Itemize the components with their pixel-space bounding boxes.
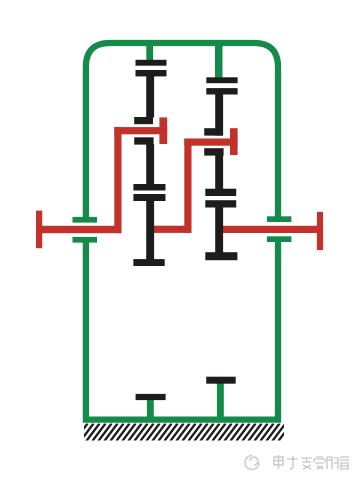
carrier arm 1 horizontal (red) <box>114 127 167 134</box>
planet shaft 1 lower foot (black) <box>134 137 153 144</box>
planet shaft 1 mid stem (black) <box>146 144 154 185</box>
carrier arm 2 bearing bar (red) <box>230 128 238 155</box>
planet shaft 1 upper stem (black) <box>146 76 154 118</box>
green stub from top wall to gear G2 <box>215 42 223 79</box>
planet shaft 2 lower stem (black) <box>215 207 223 253</box>
green stem from fixed gear G7 to bottom wall <box>147 400 154 419</box>
bearing cap left-bottom (green) <box>73 237 98 243</box>
carrier arm 1 bearing bar (red) <box>159 117 167 144</box>
gear G4 upper half (black) <box>205 189 236 196</box>
carrier arm 2 vertical (red) <box>184 139 191 233</box>
gear G3 upper half (black) <box>133 184 165 191</box>
green stem from fixed gear G8 to bottom wall <box>217 383 224 419</box>
gear G1 upper half (black) <box>136 60 167 66</box>
output shaft right (red) <box>221 226 317 233</box>
carrier arm 1 vertical (red) <box>114 127 121 233</box>
gear G2 upper half (black) <box>206 77 237 83</box>
gear G1 lower half (black) <box>136 70 167 76</box>
planet shaft 2 lower foot (black) <box>204 148 223 155</box>
watermark logo swirl <box>245 456 259 470</box>
planet shaft 1 upper foot (black) <box>134 117 153 124</box>
mid shaft link (red) <box>151 226 192 233</box>
housing frame upper (green rounded top + side walls) <box>86 43 278 217</box>
gear G6 bar (black) <box>205 252 237 260</box>
planet shaft 2 upper foot (black) <box>204 128 222 135</box>
input shaft end bar (red) <box>36 211 42 249</box>
gear G3 lower half (black) <box>133 194 165 201</box>
bearing cap right-top (green) <box>267 216 292 222</box>
gear G5 bar (black) <box>133 259 164 266</box>
input shaft left (red) <box>40 226 122 233</box>
green stub from top wall to gear G1 <box>146 42 153 62</box>
fixed gear G8 bar (black) <box>206 377 236 384</box>
planet shaft 2 upper stem (black) <box>215 94 223 136</box>
gear G4 lower half (black) <box>205 200 236 207</box>
fixed gear G7 bar (black) <box>136 394 166 400</box>
housing frame lower (green side walls + bottom wall) <box>86 242 278 420</box>
ground hatching <box>74 424 292 442</box>
bearing cap left-top (green) <box>73 217 98 223</box>
planet shaft 2 mid stem (black) <box>215 155 223 190</box>
bearing cap right-bottom (green) <box>267 236 292 242</box>
carrier arm 2 horizontal (red) <box>184 139 237 146</box>
planet shaft 1 lower stem (black) <box>146 201 154 260</box>
watermark text 电力专家联盟 (drawn strokes) <box>274 455 349 469</box>
output shaft end bar (red) <box>317 212 323 250</box>
gear G2 lower half (black) <box>206 88 237 94</box>
